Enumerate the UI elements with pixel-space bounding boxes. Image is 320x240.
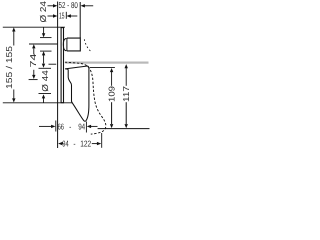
dimension 66-94 left extension bar — [55, 121, 57, 132]
dashed knob pulled-position arc — [84, 39, 91, 51]
52-80 left arrowhead — [53, 4, 57, 7]
extension bar dashed-handle front x=101.7 — [101, 133, 103, 148]
Ø24 upper arrowhead — [42, 33, 45, 37]
knob flange line — [66, 38, 68, 51]
svg-text:74: 74 — [28, 53, 38, 67]
Ø44 lower arrowhead — [42, 94, 45, 98]
extension tick handle center y=79.6 — [29, 79, 38, 81]
52-80 right arrowhead — [81, 4, 85, 7]
dimension 74 lower stem — [33, 70, 35, 75]
svg-text:109: 109 — [107, 86, 117, 102]
Ø44 upper arrowhead — [42, 64, 45, 68]
dimension 94-122 right segment — [92, 143, 98, 145]
117 upper arrowhead — [125, 64, 128, 68]
Ø24 lower arrowhead — [42, 51, 45, 55]
lever handle solid outline — [65, 66, 89, 121]
155/155 upper arrowhead — [12, 27, 15, 31]
dimension 117 lower stem — [125, 102, 127, 124]
extension line knob centerline y=44.7 — [29, 43, 57, 45]
Ø44 lower arrow stem — [43, 98, 45, 103]
knob cap (dome) — [63, 38, 66, 50]
svg-text:94: 94 — [62, 139, 69, 149]
155/155 lower arrowhead — [12, 98, 15, 102]
svg-text:Ø 44: Ø 44 — [40, 70, 50, 92]
tub rim gray line — [65, 62, 148, 64]
svg-text:94: 94 — [78, 121, 85, 131]
svg-text:15: 15 — [59, 10, 65, 20]
15 left arrowhead — [53, 14, 57, 17]
extension tick rim level y=64.2 — [49, 63, 57, 65]
svg-text:Ø 24: Ø 24 — [38, 1, 48, 23]
svg-text:117: 117 — [121, 86, 131, 102]
74 lower arrowhead — [32, 75, 35, 79]
extension line top of plate y=27.2 — [3, 26, 65, 28]
svg-text:-: - — [73, 139, 75, 149]
94-122 left arrowhead — [58, 142, 62, 145]
dimension 52-80 right tail — [84, 5, 93, 7]
dimension 66-94 left tail — [39, 125, 51, 127]
15 right arrowhead — [67, 14, 71, 17]
extension line bottom of plate y=102.8 — [3, 102, 73, 104]
escutcheon plate edge-on — [61, 28, 63, 103]
extension line handle top y=67.6 — [90, 67, 115, 69]
Ø24 lower arrow stem to Ø44 upper arrow head — [43, 55, 45, 63]
109 upper arrowhead — [110, 68, 113, 72]
dimension 66-94 right extension bar — [85, 122, 87, 133]
dimension 109 upper stem — [111, 72, 113, 86]
dashed handle outline (pulled-out position) — [65, 62, 106, 134]
dimension 52-80 left arrow — [48, 5, 54, 7]
svg-text:155 / 155: 155 / 155 — [4, 46, 14, 89]
dimension 155/155 line upper stem — [13, 31, 15, 46]
94-122 right arrowhead — [97, 142, 101, 145]
66-94 right arrowhead — [87, 125, 91, 128]
svg-text:-: - — [69, 121, 71, 131]
extension line boss bottom y=93.5 — [39, 93, 52, 95]
bottom reference line y=128.6 — [98, 128, 150, 130]
svg-text:66: 66 — [58, 121, 65, 131]
svg-text:52 - 80: 52 - 80 — [59, 0, 78, 10]
74 upper arrowhead — [32, 44, 35, 48]
svg-text:122: 122 — [80, 139, 91, 149]
extension line knob right edge x=80 — [79, 2, 81, 38]
dimension 66-94 right tail — [91, 125, 98, 127]
Ø24 upper arrow stem — [43, 27, 45, 33]
66-94 left arrowhead — [51, 125, 55, 128]
dimension 15 right tail — [70, 15, 77, 17]
dimension 74 upper stem — [33, 48, 35, 54]
extension bar for 15 at x=66.3 — [65, 12, 67, 19]
knob body Ø24 — [67, 38, 80, 51]
extension line knob top y=38.2 — [40, 37, 52, 39]
dimension 109 lower stem — [111, 102, 113, 124]
117 lower arrowhead — [125, 124, 128, 128]
dimension 15 left tail — [48, 15, 54, 17]
extension line boss top y=68.3 — [39, 67, 52, 69]
109 lower arrowhead — [110, 124, 113, 128]
wall reference line V1 — [57, 2, 59, 149]
dimension 94-122 left segment — [62, 143, 64, 145]
extension line knob bottom y=51 — [40, 50, 52, 52]
dimension 155/155 line lower stem — [13, 90, 15, 100]
dimension 117 upper stem — [125, 68, 127, 86]
